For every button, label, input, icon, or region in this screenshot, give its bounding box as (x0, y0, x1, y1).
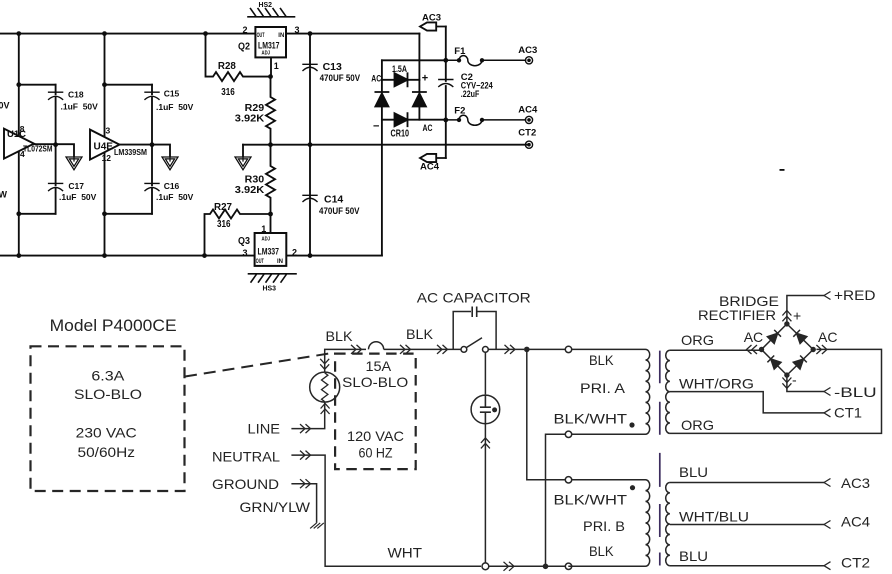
chevrons into bridge left (747, 345, 758, 354)
top section text (0, 0, 538, 293)
dashed box model (31, 346, 185, 491)
svg-text:BLK: BLK (326, 328, 354, 344)
diode bridge upper-left (767, 330, 781, 344)
svg-text:6.3A: 6.3A (91, 368, 125, 384)
ground (analog) at U1C output (66, 157, 82, 170)
wire C18/C17 column (55, 85, 57, 214)
bridge CR10 bottom diode row wire (382, 119, 446, 121)
chevrons after switch (505, 345, 516, 354)
arrow AC4 (824, 521, 831, 529)
connector tag AC4 (bottom) (420, 154, 446, 162)
svg-text:2: 2 (292, 248, 297, 258)
svg-text:WHT/BLU: WHT/BLU (679, 508, 749, 524)
svg-text:OUT: OUT (256, 259, 264, 265)
terminal AC4 center (527, 118, 531, 122)
capacitor C13 (303, 64, 317, 70)
svg-text:3.92K: 3.92K (235, 112, 265, 124)
svg-text:C18: C18 (68, 90, 84, 100)
svg-text:LM337: LM337 (258, 246, 280, 257)
svg-text:0V: 0V (0, 101, 10, 111)
svg-text:U4E: U4E (94, 142, 114, 153)
bridge CR10 left edge wire (381, 60, 383, 255)
switch right terminal (483, 347, 489, 353)
diode CR10 right (up) (413, 92, 426, 107)
winding SEC.1 (666, 350, 670, 433)
wire GROUND entry (291, 484, 316, 523)
svg-text:TL072SM: TL072SM (23, 145, 53, 154)
bridge CR10 top edge wire (382, 59, 446, 61)
arrow CT1 (824, 409, 831, 417)
terminal circle PRI.A bottom (565, 431, 571, 437)
diode CR10 top (AC to +) (395, 73, 408, 86)
capacitor C14 column wire (309, 145, 311, 256)
svg-text:AC4: AC4 (841, 514, 870, 530)
diode CR10 bottom (- to AC) (395, 113, 408, 126)
wire lamp branch (484, 352, 486, 563)
capacitor C16 (145, 183, 159, 190)
node dot bridge right (811, 347, 816, 352)
chevrons hot rail 2 (400, 345, 411, 354)
svg-text:470UF 50V: 470UF 50V (319, 206, 360, 216)
dashed box 120VAC (335, 354, 416, 470)
svg-text:AC: AC (818, 329, 837, 345)
svg-text:15A: 15A (366, 358, 392, 374)
core T1 (659, 351, 661, 435)
lamp plates (480, 394, 491, 424)
svg-text:F2: F2 (454, 106, 465, 117)
node dot fuse F1 ends (457, 58, 461, 62)
svg-text:230 VAC: 230 VAC (76, 425, 137, 441)
wire SEC2 WHT/BLU to AC4 (670, 524, 824, 526)
svg-text:.1uF 50V: .1uF 50V (156, 192, 194, 202)
phasing dot PRI.B (630, 485, 635, 490)
svg-text:C17: C17 (68, 181, 84, 191)
wire hot to PRI.A top (527, 348, 566, 350)
svg-text:BLK/WHT: BLK/WHT (554, 492, 628, 508)
svg-text:AC CAPACITOR: AC CAPACITOR (417, 290, 531, 306)
stray mark (780, 169, 785, 171)
svg-text:60 HZ: 60 HZ (359, 445, 393, 461)
wire LM337 ADJ pin stub (270, 214, 272, 233)
heatsink HS2 (248, 9, 295, 17)
svg-text:PRI. A: PRI. A (580, 380, 626, 396)
resistor R30 (266, 145, 275, 214)
bottom junction dots (524, 321, 816, 569)
wire LM317 ADJ pin stub (270, 57, 272, 76)
node dot mid rail C13 (308, 142, 313, 147)
svg-text:50/60Hz: 50/60Hz (78, 444, 136, 460)
wire WHT to PRI.B bottom (489, 565, 565, 567)
wire LINE entry (291, 402, 324, 429)
svg-text:IN: IN (278, 33, 284, 39)
svg-text:1: 1 (261, 224, 266, 234)
node dot top rail x18.8 (16, 31, 21, 36)
node dot F2 left (443, 118, 448, 123)
svg-text:-BLU: -BLU (834, 384, 877, 400)
terminal circle PRI.B bottom (565, 563, 571, 569)
svg-text:SLO-BLO: SLO-BLO (74, 386, 142, 402)
svg-text:3: 3 (295, 25, 300, 35)
node dot bridge left (759, 347, 764, 352)
svg-text:OUT: OUT (257, 33, 265, 39)
wire SEC1 ORG top to bridge (670, 349, 762, 351)
svg-text:C15: C15 (164, 88, 180, 98)
node dot bridge top (784, 321, 789, 326)
svg-text:WHT/ORG: WHT/ORG (679, 375, 754, 391)
terminal CT2 (525, 141, 532, 148)
wire bridge + to +RED (787, 296, 824, 324)
node dot R28 junction (268, 74, 273, 79)
capacitor C15 (145, 92, 159, 99)
svg-text:W: W (0, 190, 8, 200)
node dot bottom rail x18.8 (16, 253, 21, 258)
wire SEC1 ORG bottom loop (670, 349, 882, 433)
svg-text:PRI. B: PRI. B (583, 518, 625, 534)
svg-text:LM339SM: LM339SM (114, 148, 147, 157)
svg-text:4: 4 (20, 149, 25, 159)
wire PRI.B top feed (527, 349, 566, 479)
bridge CR10 top diode row wire (382, 79, 420, 81)
regulator U-Q2 LM317 box (255, 27, 286, 57)
terminal AC3 (525, 57, 532, 64)
svg-text:3: 3 (243, 248, 248, 258)
diode bridge lower-right (793, 356, 807, 370)
svg-text:AC4: AC4 (518, 104, 538, 115)
svg-text:BLK/WHT: BLK/WHT (554, 411, 628, 427)
svg-text:C13: C13 (323, 61, 342, 73)
svg-text:AC: AC (423, 123, 433, 134)
heatsink HS3 (249, 274, 297, 282)
svg-text:.1uF 50V: .1uF 50V (59, 192, 97, 202)
wire C15/C16 column (151, 85, 153, 214)
svg-text:C16: C16 (164, 181, 180, 191)
node dot top rail x205.5 (203, 31, 208, 36)
capacitor C2 (439, 80, 453, 87)
node dot C15 stub (102, 82, 107, 87)
svg-text:LINE: LINE (248, 421, 281, 437)
arrow CT2 (824, 562, 831, 570)
svg-text:Q3: Q3 (238, 235, 250, 247)
svg-text:CT1: CT1 (834, 405, 862, 421)
terminal CT2 center (527, 143, 531, 147)
lamp dot (492, 407, 497, 412)
lamp circle (471, 395, 500, 424)
svg-text:NEUTRAL: NEUTRAL (212, 449, 280, 465)
svg-text:CT2: CT2 (841, 555, 870, 571)
svg-text:316: 316 (217, 218, 231, 230)
svg-text:−: − (373, 121, 379, 133)
chevrons bridge + up (782, 311, 791, 322)
wire mid rail (243, 144, 529, 146)
svg-text:CT2: CT2 (518, 127, 536, 138)
svg-text:.22uF: .22uF (461, 89, 480, 99)
svg-text:IN: IN (277, 259, 283, 265)
svg-text:GROUND: GROUND (212, 476, 279, 492)
wire SEC1 WHT/ORG tap (670, 392, 824, 413)
bottom section text (50, 287, 877, 571)
wire PRI.A bottom return (546, 434, 566, 566)
connector tag AC3 (top) (420, 22, 446, 30)
arrow -BLU (824, 388, 831, 396)
svg-text:R28: R28 (218, 61, 236, 72)
svg-text:R27: R27 (214, 202, 232, 213)
svg-text:ORG: ORG (681, 417, 714, 433)
svg-text:AC3: AC3 (841, 475, 870, 491)
chevrons hot rail 3 (437, 345, 448, 354)
svg-text:470UF 50V: 470UF 50V (320, 73, 361, 83)
terminal circle WHT on bottom (482, 563, 489, 570)
svg-text:.1uF 50V: .1uF 50V (61, 101, 99, 111)
node dot WHT rail (543, 564, 549, 570)
svg-text:AC3: AC3 (518, 45, 537, 56)
node dot mid rail R29 (268, 142, 273, 147)
node dot C17 stub (16, 211, 21, 216)
regulator U-Q3 LM337 box (255, 233, 287, 266)
transformer cores (659, 351, 661, 566)
svg-text:BLK: BLK (589, 543, 614, 559)
node dot U1C output (53, 142, 58, 147)
wire C18 top stub (19, 84, 56, 86)
svg-text:HS2: HS2 (259, 0, 273, 9)
winding PRI.B (646, 480, 650, 566)
wire C17 bottom stub (19, 213, 56, 215)
svg-text:CR10: CR10 (391, 129, 410, 140)
node dot top rail x310 (308, 31, 313, 36)
ground (analog) at U4E output (162, 157, 178, 170)
wire SEC2 BLU to AC3 (670, 482, 824, 484)
svg-text:1: 1 (274, 61, 279, 71)
wire C16 bottom stub (105, 213, 153, 215)
chevrons hot rail 1 (351, 345, 362, 354)
capacitor C18 (49, 92, 63, 99)
fuse F-15A circle (310, 372, 340, 402)
svg-text:.1uF 50V: .1uF 50V (156, 102, 194, 112)
svg-text:AC4: AC4 (420, 162, 440, 173)
node dot fuse F2 ends (457, 118, 461, 122)
node dot top rail x104.5 (102, 31, 107, 36)
node dot U4E output (150, 142, 155, 147)
chevrons out bridge right (816, 345, 827, 354)
fuse hump symbol (369, 342, 384, 350)
terminal AC3 center (527, 59, 531, 63)
op-amp U4E (90, 130, 170, 160)
svg-text:GRN/YLW: GRN/YLW (240, 499, 311, 515)
wire hot rail to switch (384, 348, 461, 350)
terminal AC4 (525, 116, 532, 123)
AC capacitor plates (472, 307, 477, 318)
arrow AC3 (824, 479, 831, 487)
wire U4E power column (104, 34, 106, 256)
resistor R28 (206, 34, 271, 82)
chevrons WHT (504, 562, 515, 571)
core T2 (659, 453, 661, 566)
resistor R29 (266, 77, 275, 145)
svg-text:ADJ: ADJ (262, 237, 271, 243)
fuse F1 (446, 56, 526, 66)
svg-text:316: 316 (221, 86, 235, 98)
node dot bridge bottom (784, 372, 789, 377)
wire bridge - to -BLU (787, 375, 824, 391)
chevrons fuse up (below circle) (321, 404, 330, 415)
bridge rectifier diamond (762, 324, 814, 375)
wire fuse top to hot rail (325, 349, 366, 372)
svg-text:RECTIFIER: RECTIFIER (698, 307, 776, 323)
diode bridge lower-left (767, 356, 781, 370)
capacitor C13 column wire (309, 34, 311, 145)
wire SEC2 BLU to CT2 (670, 565, 824, 567)
svg-text:2: 2 (243, 25, 248, 35)
node dot bottom rail C14 (308, 253, 313, 258)
svg-text:3: 3 (106, 126, 111, 136)
svg-text:+: + (422, 73, 428, 85)
svg-text:BLU: BLU (679, 464, 708, 480)
svg-text:C14: C14 (324, 194, 343, 206)
wire NEUTRAL entry (291, 455, 481, 566)
op-amp U1C (4, 129, 74, 159)
capacitor C14 (303, 195, 317, 201)
ground chassis symbol (310, 523, 324, 529)
svg-text:BLU: BLU (679, 548, 708, 564)
diode bridge upper-right (793, 330, 807, 344)
fuse element zigzag (322, 373, 328, 402)
ground (analog) at mid rail (242, 145, 244, 157)
arrow +RED (824, 292, 831, 300)
svg-text:AC3: AC3 (422, 12, 441, 23)
svg-text:HS3: HS3 (263, 284, 277, 293)
svg-text:BLK: BLK (589, 352, 614, 368)
chevrons lamp branch up (481, 438, 490, 449)
wire PRI.B leads (568, 480, 645, 567)
dashed leader line (185, 353, 333, 377)
capacitor C2 column wire (445, 27, 447, 159)
svg-text:AC: AC (371, 73, 381, 84)
winding PRI.A (646, 349, 650, 434)
terminal circle PRI.B top (565, 477, 571, 483)
phasing dot PRI.A (629, 422, 634, 427)
resistor R27 (205, 210, 271, 256)
junction dots top section (16, 31, 784, 258)
node dot bottom rail x104.5 (102, 253, 107, 258)
terminal circle PRI.A top (565, 346, 571, 352)
capacitor C17 (49, 183, 63, 190)
svg-text:+: + (793, 308, 801, 324)
svg-text:Model P4000CE: Model P4000CE (50, 317, 177, 335)
chevrons LINE (300, 424, 311, 433)
AC capacitor bypass loop (453, 312, 524, 350)
svg-text:WHT: WHT (388, 545, 423, 561)
node dot bottom rail x204.5 (202, 253, 207, 258)
svg-text:SLO-BLO: SLO-BLO (342, 374, 408, 390)
svg-text:BLK: BLK (406, 326, 434, 342)
fuse F2 (446, 115, 526, 125)
wire top rail (0, 33, 419, 35)
node dot F1 left (443, 58, 448, 63)
wire C15 top stub (105, 84, 153, 86)
switch left terminal (461, 347, 467, 353)
svg-text:ADJ: ADJ (262, 51, 271, 57)
node dot hot rail (524, 347, 530, 353)
wire U1C power column (18, 34, 20, 256)
chevrons GROUND (300, 479, 311, 488)
wire PRI.A leads (572, 349, 646, 434)
chevrons NEUTRAL (300, 451, 311, 460)
svg-text:+RED: +RED (834, 287, 876, 303)
svg-text:ORG: ORG (681, 332, 714, 348)
node dot R27 junction (268, 212, 273, 217)
svg-text:AC: AC (744, 329, 763, 345)
chevrons bridge - down (782, 378, 791, 389)
winding SEC.2 (666, 483, 670, 566)
chevrons fuse wire down (320, 359, 329, 370)
svg-text:12: 12 (102, 153, 112, 163)
svg-text:1.5A: 1.5A (392, 64, 407, 74)
node dot C18 stub (16, 82, 21, 87)
svg-text:3.92K: 3.92K (235, 184, 265, 196)
svg-text:8: 8 (20, 124, 25, 134)
wire bottom rail (0, 255, 382, 257)
diode CR10 left (up) (375, 92, 388, 107)
svg-text:F1: F1 (454, 46, 466, 57)
switch blade (467, 338, 483, 348)
svg-text:-: - (792, 372, 797, 388)
svg-text:120 VAC: 120 VAC (347, 428, 404, 444)
svg-text:Q2: Q2 (238, 40, 250, 52)
node dot C16 stub (102, 211, 107, 216)
bridge CR10 right edge wire (418, 34, 420, 120)
